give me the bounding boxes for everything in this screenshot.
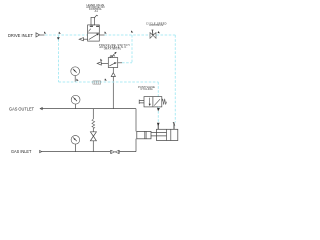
metering valve MV body [150,33,156,39]
relief valve branch wire [92,109,94,152]
pressure switch PS label text [99,44,130,51]
wire pump feed up from gas inlet [135,139,137,152]
node GAS INLET flag [40,150,42,152]
valve V1 bottom-chamber diagonal path [89,34,98,39]
air cylinder (drive section) body [157,129,178,140]
arrow into cylinder left port [157,123,160,127]
flow arrow below push valve [157,108,160,112]
wire main drive line (cyan dashed) to metering valve [105,34,151,36]
gauge G3 stem [74,144,76,152]
valve V1 inner arrow top chamber [88,29,90,32]
flow arrow on branch vertical [57,37,60,40]
svg-text:CONTROL: CONTROL [149,24,164,27]
gas pump (booster) body [137,131,151,138]
arrow into cylinder right port [173,122,176,126]
svg-text:GAS INLET: GAS INLET [11,149,32,154]
svg-text:A1: A1 [95,10,99,13]
valve V1 label text [86,4,104,13]
relief valve spring [92,119,95,128]
wire main drive line (cyan dashed) to right elbow [156,34,175,36]
push valve PV button actuator [139,100,144,104]
svg-text:CYCLING: CYCLING [141,88,153,91]
wire PS pilot output (cyan dashed) [118,62,122,64]
pressure switch PS spring + adjust arrow [110,53,116,58]
node DRIVE INLET flag [36,33,40,37]
valve V1 top-chamber port marks [90,25,100,27]
flow arrow on pilot line [105,78,107,80]
pressure switch PS bottom stub [112,68,114,73]
wire main drive line (cyan dashed) left of valve V1 [45,34,88,36]
push valve PV label text [138,86,155,91]
muffler on pilot line [93,81,101,84]
valve V1 body (lever operated 3/2) [88,25,100,41]
wire pilot branch vertical (cyan dashed) [58,35,60,82]
flow arrow on drive line [44,31,46,33]
wire pilot line horizontal (cyan dashed) [59,81,159,83]
metering valve MV label text [146,22,167,27]
svg-text:(MAXIMUM): (MAXIMUM) [104,48,122,51]
gauge G3 (gas inlet pressure) [71,136,80,145]
wire PS pilot riser (cyan dashed) [131,35,133,63]
valve V1 lever actuator [91,15,98,25]
node GAS OUTLET flag [40,107,42,109]
wire PS sense line down to gas outlet line [112,77,114,109]
valve V1 exhaust triangle [79,38,83,41]
push valve PV return spring [162,99,167,105]
valve V1 exhaust port wire [83,38,87,40]
flow arrow after valve V1 [104,31,106,33]
gauge G1 stem [74,76,76,82]
svg-text:DRIVE INLET: DRIVE INLET [8,33,33,38]
flow arrow at PS vent [100,59,102,61]
wire gas inlet line right segment [119,151,136,153]
wire gas outlet drop to pump [135,109,137,132]
wire main drive line stub right of valve V1 [99,34,104,36]
gas pump divider [145,131,146,138]
push valve PV right chamber diagonal [154,99,160,105]
wire drive down line (cyan dashed) to cylinder right port [174,35,176,123]
push valve PV body [144,97,162,107]
pressure switch PS inner arrow [109,63,114,66]
gauge G2 stem [75,104,77,109]
wire drive inlet stub [40,34,45,36]
pressure switch PS bottom triangle [111,73,115,77]
pressure switch PS vent triangle [97,62,101,65]
wire gas outlet line [40,108,136,110]
svg-text:GAS OUTLET: GAS OUTLET [9,107,34,112]
push valve PV left chamber arrow [149,98,151,105]
wire gas inlet line left segment [40,151,110,153]
relief valve body (bowtie) [90,132,96,141]
pressure switch PS body [108,58,117,68]
flow arrow after metering valve [158,31,160,33]
flow arrow at G1 junction [76,79,78,81]
air cylinder piston [167,129,171,140]
wire pilot drop (cyan dashed) below push valve [157,107,159,123]
gauge G2 (gas outlet pressure) [71,95,80,104]
wire pilot drop (cyan dashed) above push valve [157,82,159,97]
flow arrow at pressure-switch branch junction [131,30,133,32]
pressure switch PS left vent wire [101,62,108,64]
piston rod [151,132,167,136]
inlet coupling / check valve [110,150,119,154]
flow arrow at branch [59,32,61,34]
gauge G1 (drive pilot pressure) [71,67,80,76]
